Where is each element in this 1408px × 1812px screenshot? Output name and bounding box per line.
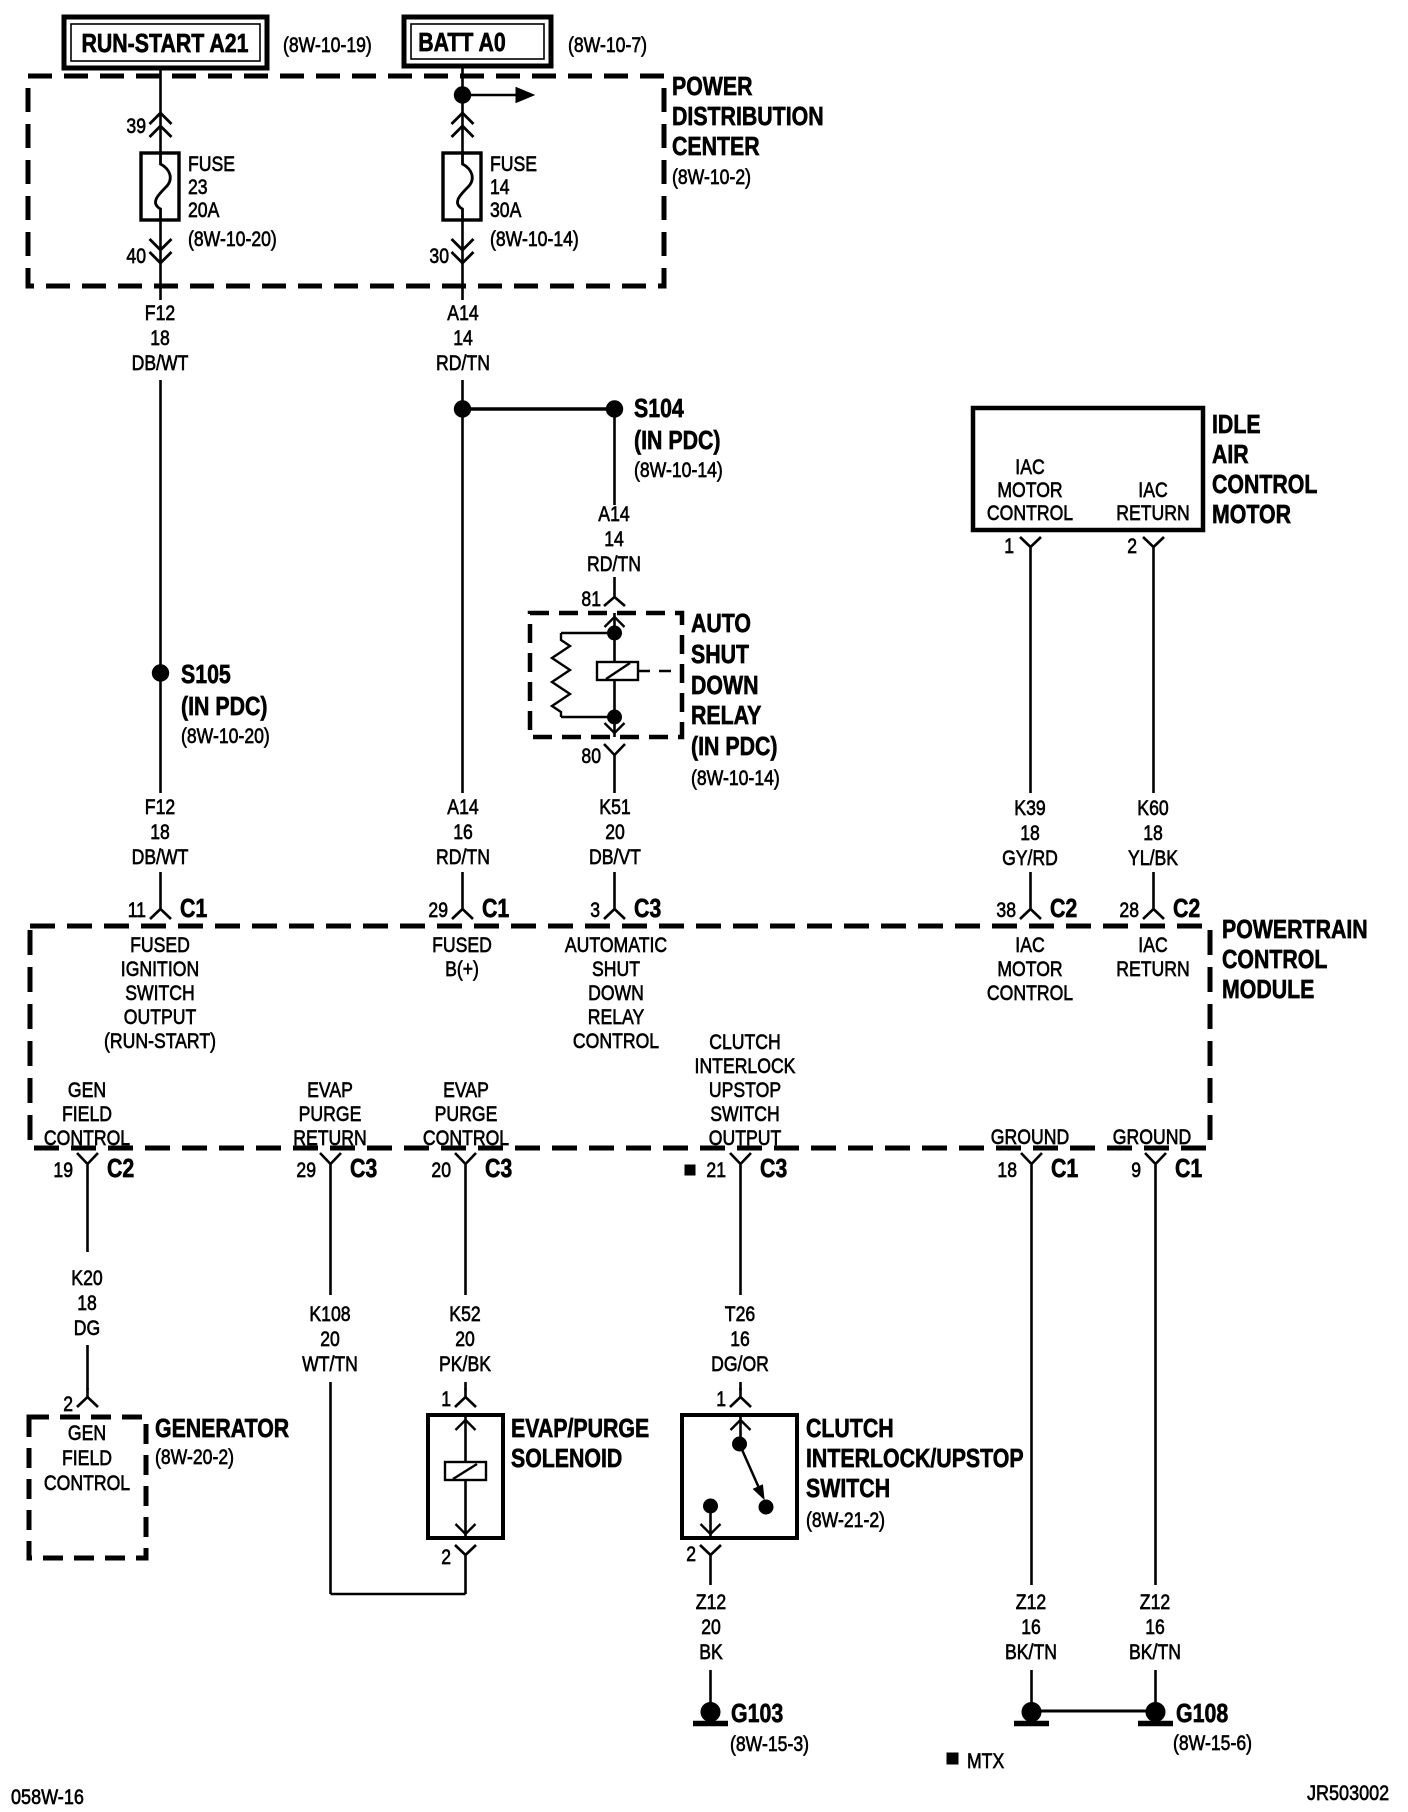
wire K108 to solenoid pin 2 <box>331 1593 466 1596</box>
svg-text:CLUTCH: CLUTCH <box>806 1413 894 1443</box>
svg-text:SWITCH: SWITCH <box>125 981 195 1005</box>
svg-text:DB/WT: DB/WT <box>132 845 189 869</box>
relay bottom junction <box>608 710 622 724</box>
splice S105 <box>152 659 269 748</box>
powertrain control module dashed box <box>30 926 1210 1148</box>
svg-text:20: 20 <box>320 1327 340 1351</box>
svg-text:EVAP: EVAP <box>307 1078 353 1102</box>
wire label F12 18 DB/WT lower <box>132 795 189 869</box>
svg-text:A14: A14 <box>447 795 478 819</box>
svg-text:AIR: AIR <box>1212 439 1249 469</box>
svg-text:1: 1 <box>441 1387 451 1411</box>
ground G103 <box>693 1698 809 1756</box>
svg-text:2: 2 <box>1127 534 1137 558</box>
svg-text:9: 9 <box>1131 1158 1141 1182</box>
solenoid output arrow <box>456 1480 476 1538</box>
pin 28 C2 into PCM <box>1119 872 1200 923</box>
wire label K20 18 DG <box>71 1266 102 1340</box>
label GROUND left <box>991 1125 1069 1149</box>
svg-text:K52: K52 <box>449 1302 480 1326</box>
svg-text:14: 14 <box>453 326 473 350</box>
svg-text:81: 81 <box>581 587 601 611</box>
svg-text:GEN: GEN <box>68 1078 106 1102</box>
label (8W-10-7) <box>568 33 647 57</box>
wire label A14 16 RD/TN <box>436 795 490 869</box>
chevron pair above fuse 14 <box>452 113 474 137</box>
svg-text:RELAY: RELAY <box>588 1005 645 1029</box>
svg-text:(8W-10-14): (8W-10-14) <box>691 766 780 790</box>
svg-text:SWITCH: SWITCH <box>710 1102 780 1126</box>
switch contact right <box>759 1500 773 1514</box>
connector box BATT A0 <box>404 17 551 66</box>
svg-text:G103: G103 <box>731 1698 783 1728</box>
pin 9 C1 out of PCM <box>1131 1153 1202 1185</box>
pin 2 of generator <box>63 1388 98 1416</box>
svg-text:RETURN: RETURN <box>293 1126 367 1150</box>
svg-text:16: 16 <box>1021 1615 1041 1639</box>
svg-text:GENERATOR: GENERATOR <box>155 1413 289 1443</box>
svg-text:CONTROL: CONTROL <box>987 981 1073 1005</box>
svg-text:FIELD: FIELD <box>62 1446 112 1470</box>
svg-text:OUTPUT: OUTPUT <box>124 1005 197 1029</box>
label IAC RETURN in box <box>1116 478 1190 525</box>
switch common contact <box>733 1437 747 1451</box>
wire label Z12 20 BK <box>696 1590 726 1664</box>
wire S104 left branch down <box>461 417 464 793</box>
svg-text:80: 80 <box>581 744 601 768</box>
svg-text:SWITCH: SWITCH <box>806 1473 890 1503</box>
label GEN FIELD CONTROL in generator <box>44 1421 130 1495</box>
wire between grounds <box>1040 1710 1147 1713</box>
svg-text:30: 30 <box>429 244 449 268</box>
label FUSED IGNITION SWITCH OUTPUT (RUN-START) <box>104 933 216 1053</box>
pin 21 C3 out of PCM <box>685 1153 787 1185</box>
svg-text:23: 23 <box>188 175 208 199</box>
svg-text:058W-16: 058W-16 <box>11 1785 84 1809</box>
label EVAP PURGE RETURN <box>293 1078 367 1150</box>
splice S104 <box>454 393 723 482</box>
svg-text:16: 16 <box>1145 1615 1165 1639</box>
svg-text:POWER: POWER <box>672 71 753 101</box>
svg-text:PURGE: PURGE <box>435 1102 498 1126</box>
wire Z12 right upper <box>1154 1185 1157 1585</box>
wire K108 upper <box>329 1185 332 1295</box>
svg-text:20: 20 <box>605 820 625 844</box>
label CLUTCH INTERLOCK UPSTOP SWITCH OUTPUT <box>695 1030 796 1150</box>
wire T26 lower <box>739 1382 742 1390</box>
wire S104 right branch down <box>613 417 616 505</box>
wire label K108 20 WT/TN <box>302 1302 358 1376</box>
pin 18 C1 out of PCM <box>997 1153 1078 1185</box>
svg-text:FUSE: FUSE <box>188 152 235 176</box>
svg-text:CENTER: CENTER <box>672 131 760 161</box>
relay coil <box>597 633 681 717</box>
label IAC MOTOR CONTROL in box <box>987 455 1073 525</box>
pin 11 C1 into PCM <box>128 872 208 923</box>
relay coil branch wires <box>561 633 615 717</box>
svg-text:Z12: Z12 <box>696 1590 726 1614</box>
svg-text:CONTROL: CONTROL <box>1222 944 1327 974</box>
pin 1 of IAC motor <box>1004 534 1041 560</box>
ground G108 left node <box>1014 1703 1049 1724</box>
svg-text:14: 14 <box>604 527 624 551</box>
svg-text:C3: C3 <box>350 1153 377 1183</box>
pin 29 C1 into PCM <box>428 872 509 923</box>
svg-text:K39: K39 <box>1014 796 1045 820</box>
chevron pair below fuse 23 <box>150 239 172 263</box>
svg-text:38: 38 <box>996 898 1016 922</box>
svg-text:(8W-10-20): (8W-10-20) <box>188 227 277 251</box>
svg-text:CONTROL: CONTROL <box>44 1126 130 1150</box>
pin 29 C3 out of PCM <box>296 1153 377 1185</box>
svg-text:(8W-10-2): (8W-10-2) <box>672 165 751 189</box>
svg-text:30A: 30A <box>490 198 522 222</box>
wire S105 to label <box>159 681 162 793</box>
svg-text:S105: S105 <box>181 659 231 689</box>
switch arm <box>740 1444 765 1499</box>
svg-text:20: 20 <box>431 1158 451 1182</box>
svg-text:MOTOR: MOTOR <box>1212 499 1291 529</box>
svg-text:IDLE: IDLE <box>1212 409 1261 439</box>
svg-text:MOTOR: MOTOR <box>997 957 1062 981</box>
wire label K60 18 YL/BK <box>1128 796 1179 870</box>
svg-text:20A: 20A <box>188 198 220 222</box>
label IDLE AIR CONTROL MOTOR <box>1212 409 1317 529</box>
svg-text:AUTOMATIC: AUTOMATIC <box>565 933 667 957</box>
solenoid input arrow <box>456 1415 476 1462</box>
svg-text:2: 2 <box>63 1392 73 1416</box>
svg-text:C3: C3 <box>634 893 661 923</box>
svg-text:11: 11 <box>128 898 146 922</box>
wire BATT A0 to node <box>461 66 464 95</box>
pin 2 of IAC motor <box>1127 534 1164 560</box>
svg-text:18: 18 <box>77 1291 97 1315</box>
svg-text:RELAY: RELAY <box>691 700 761 730</box>
svg-text:CONTROL: CONTROL <box>44 1471 130 1495</box>
svg-text:(8W-20-2): (8W-20-2) <box>155 1445 234 1469</box>
svg-text:EVAP/PURGE: EVAP/PURGE <box>511 1413 649 1443</box>
svg-text:A14: A14 <box>598 502 629 526</box>
svg-text:FUSE: FUSE <box>490 152 537 176</box>
wire Z12 left upper <box>1030 1185 1033 1585</box>
svg-text:C1: C1 <box>1175 1153 1202 1183</box>
switch contact left <box>704 1499 718 1513</box>
svg-text:IAC: IAC <box>1138 933 1167 957</box>
svg-text:14: 14 <box>490 175 510 199</box>
svg-text:FUSED: FUSED <box>432 933 492 957</box>
svg-text:DB/WT: DB/WT <box>132 351 189 375</box>
wire K20 lower <box>86 1345 89 1390</box>
relay input arrow <box>605 613 625 633</box>
svg-text:WT/TN: WT/TN <box>302 1352 358 1376</box>
svg-text:DOWN: DOWN <box>691 670 759 700</box>
svg-text:DB/VT: DB/VT <box>589 845 641 869</box>
svg-text:RD/TN: RD/TN <box>436 845 490 869</box>
svg-text:16: 16 <box>730 1327 750 1351</box>
ground G108 <box>1138 1698 1252 1755</box>
wire fuse 23 to PDC edge <box>159 220 162 300</box>
idle air control motor box <box>973 408 1203 530</box>
note MTX <box>947 1749 1004 1773</box>
svg-text:YL/BK: YL/BK <box>1128 846 1179 870</box>
svg-text:BK/TN: BK/TN <box>1005 1640 1057 1664</box>
chevron pair below fuse 14 <box>452 239 474 263</box>
svg-text:2: 2 <box>441 1545 451 1569</box>
label (8W-10-19) <box>283 33 372 57</box>
svg-text:BATT A0: BATT A0 <box>418 27 506 57</box>
wire K52 lower <box>464 1382 467 1390</box>
svg-text:1: 1 <box>1004 534 1014 558</box>
power distribution center dashed box <box>28 76 664 286</box>
svg-text:C3: C3 <box>485 1153 512 1183</box>
svg-text:(RUN-START): (RUN-START) <box>104 1029 216 1053</box>
svg-text:18: 18 <box>150 326 170 350</box>
svg-text:CONTROL: CONTROL <box>423 1126 509 1150</box>
svg-text:20: 20 <box>455 1327 475 1351</box>
svg-text:21: 21 <box>706 1158 726 1182</box>
wire node to fuse 14 <box>461 95 464 154</box>
svg-text:SOLENOID: SOLENOID <box>511 1443 622 1473</box>
svg-text:A14: A14 <box>447 301 478 325</box>
pin 38 C2 into PCM <box>996 872 1077 923</box>
wire fuse 14 to PDC edge <box>461 220 464 300</box>
svg-text:BK/TN: BK/TN <box>1129 1640 1181 1664</box>
pin 39 <box>126 114 146 138</box>
sheet number 058W-16 <box>11 1785 84 1809</box>
svg-text:MOTOR: MOTOR <box>997 478 1062 502</box>
svg-text:OUTPUT: OUTPUT <box>709 1126 782 1150</box>
svg-text:19: 19 <box>53 1158 73 1182</box>
label AUTOMATIC SHUT DOWN RELAY CONTROL <box>565 933 667 1053</box>
svg-text:MODULE: MODULE <box>1222 974 1314 1004</box>
svg-text:(8W-10-7): (8W-10-7) <box>568 33 647 57</box>
svg-text:3: 3 <box>590 898 600 922</box>
svg-text:K20: K20 <box>71 1266 102 1290</box>
svg-text:(IN PDC): (IN PDC) <box>634 425 721 455</box>
svg-text:(IN PDC): (IN PDC) <box>181 691 268 721</box>
label FUSED B(+) <box>432 933 492 981</box>
wire Z12 right to ground <box>1154 1670 1157 1705</box>
label POWERTRAIN CONTROL MODULE <box>1222 914 1368 1004</box>
node junction with arrow <box>454 87 534 103</box>
switch output arrow <box>701 1513 721 1538</box>
clutch interlock/upstop switch box <box>682 1415 797 1538</box>
pin 80 of ASD relay <box>581 744 625 793</box>
label EVAP/PURGE SOLENOID <box>511 1413 649 1473</box>
svg-text:GROUND: GROUND <box>1113 1125 1191 1149</box>
svg-text:AUTO: AUTO <box>691 608 751 638</box>
svg-text:F12: F12 <box>145 795 175 819</box>
svg-text:F12: F12 <box>145 301 175 325</box>
svg-text:PURGE: PURGE <box>299 1102 362 1126</box>
pin 20 C3 out of PCM <box>431 1153 512 1185</box>
relay output arrow <box>605 717 625 737</box>
wire label K52 20 PK/BK <box>439 1302 491 1376</box>
svg-text:CONTROL: CONTROL <box>1212 469 1317 499</box>
connector box RUN-START A21 <box>64 17 267 68</box>
pin 3 C3 into PCM <box>590 872 661 923</box>
svg-text:C1: C1 <box>1051 1153 1078 1183</box>
wire label K51 20 DB/VT <box>589 795 641 869</box>
svg-text:K51: K51 <box>599 795 630 819</box>
wire label F12 18 DB/WT <box>132 301 189 375</box>
pin 40 <box>126 244 146 268</box>
svg-text:(8W-15-6): (8W-15-6) <box>1173 1731 1252 1755</box>
svg-text:PK/BK: PK/BK <box>439 1352 491 1376</box>
label IAC MOTOR CONTROL in PCM <box>987 933 1073 1005</box>
wire A14 to S104 <box>461 380 464 402</box>
svg-text:GEN: GEN <box>68 1421 106 1445</box>
pin 19 C2 out of PCM <box>53 1153 134 1185</box>
auto shut down relay dashed box <box>530 613 682 737</box>
svg-text:(8W-10-19): (8W-10-19) <box>283 33 372 57</box>
wire K52 upper <box>464 1185 467 1295</box>
svg-text:Z12: Z12 <box>1016 1590 1046 1614</box>
label CLUTCH INTERLOCK/UPSTOP SWITCH <box>806 1413 1024 1532</box>
wire label A14 14 RD/TN relay <box>587 502 641 576</box>
generator dashed box <box>29 1417 146 1558</box>
drawing number JR503002 <box>1307 1781 1389 1805</box>
wire label Z12 16 BK/TN left <box>1005 1590 1057 1664</box>
wire label T26 16 DG/OR <box>711 1302 769 1376</box>
svg-text:DOWN: DOWN <box>588 981 644 1005</box>
svg-text:FUSED: FUSED <box>130 933 190 957</box>
wire Z12 left to ground <box>1030 1670 1033 1705</box>
pin 1 of evap solenoid <box>441 1387 476 1411</box>
wire to G103 <box>709 1670 712 1705</box>
svg-text:JR503002: JR503002 <box>1307 1781 1389 1805</box>
svg-text:IAC: IAC <box>1015 455 1044 479</box>
svg-text:(8W-10-20): (8W-10-20) <box>181 724 270 748</box>
svg-text:T26: T26 <box>725 1302 755 1326</box>
svg-text:18: 18 <box>1143 821 1163 845</box>
pin 30 <box>429 244 449 268</box>
svg-text:C3: C3 <box>760 1153 787 1183</box>
svg-text:C2: C2 <box>1050 893 1077 923</box>
svg-text:(8W-21-2): (8W-21-2) <box>806 1508 885 1532</box>
svg-text:CONTROL: CONTROL <box>573 1029 659 1053</box>
svg-text:K60: K60 <box>1137 796 1168 820</box>
svg-text:IGNITION: IGNITION <box>121 957 199 981</box>
svg-text:29: 29 <box>428 898 448 922</box>
svg-text:28: 28 <box>1119 898 1139 922</box>
svg-text:Z12: Z12 <box>1140 1590 1170 1614</box>
svg-text:INTERLOCK/UPSTOP: INTERLOCK/UPSTOP <box>806 1443 1024 1473</box>
svg-text:(8W-10-14): (8W-10-14) <box>490 227 579 251</box>
svg-text:18: 18 <box>997 1158 1017 1182</box>
svg-text:IAC: IAC <box>1015 933 1044 957</box>
evap/purge solenoid box <box>428 1415 503 1538</box>
label POWER DISTRIBUTION CENTER <box>672 71 824 189</box>
pin 2 of clutch switch <box>686 1542 721 1585</box>
svg-text:C1: C1 <box>482 893 509 923</box>
wire K39 <box>1029 560 1032 793</box>
wire label K39 18 GY/RD <box>1002 796 1058 870</box>
wire K20 upper <box>86 1185 89 1252</box>
svg-text:INTERLOCK: INTERLOCK <box>695 1054 796 1078</box>
svg-text:(8W-10-14): (8W-10-14) <box>634 458 723 482</box>
svg-text:16: 16 <box>453 820 473 844</box>
svg-text:RUN-START A21: RUN-START A21 <box>82 28 249 58</box>
svg-text:DISTRIBUTION: DISTRIBUTION <box>672 101 824 131</box>
switch input arrow <box>731 1415 751 1437</box>
svg-text:DG/OR: DG/OR <box>711 1352 769 1376</box>
wire T26 upper <box>739 1185 742 1295</box>
svg-text:20: 20 <box>701 1615 721 1639</box>
svg-text:C1: C1 <box>180 893 207 923</box>
svg-text:39: 39 <box>126 114 146 138</box>
svg-text:SHUT: SHUT <box>691 639 749 669</box>
svg-text:IAC: IAC <box>1138 478 1167 502</box>
wire label Z12 16 BK/TN right <box>1129 1590 1181 1664</box>
svg-text:K108: K108 <box>309 1302 350 1326</box>
svg-text:B(+): B(+) <box>445 957 479 981</box>
relay top junction <box>608 626 622 640</box>
svg-text:CLUTCH: CLUTCH <box>709 1030 781 1054</box>
svg-text:RD/TN: RD/TN <box>436 351 490 375</box>
svg-text:RETURN: RETURN <box>1116 501 1190 525</box>
wire F12 down to S105 <box>159 380 162 666</box>
chevron pair above fuse 23 <box>150 113 172 137</box>
svg-text:POWERTRAIN: POWERTRAIN <box>1222 914 1368 944</box>
svg-text:29: 29 <box>296 1158 316 1182</box>
svg-text:(IN PDC): (IN PDC) <box>691 731 778 761</box>
pin 81 of ASD relay <box>581 577 625 611</box>
svg-text:1: 1 <box>716 1387 726 1411</box>
svg-text:G108: G108 <box>1176 1698 1228 1728</box>
svg-text:DG: DG <box>74 1316 100 1340</box>
svg-text:S104: S104 <box>634 393 684 423</box>
svg-text:SHUT: SHUT <box>592 957 640 981</box>
svg-text:UPSTOP: UPSTOP <box>709 1078 781 1102</box>
solenoid coil <box>445 1462 486 1480</box>
label GROUND right <box>1113 1125 1191 1149</box>
svg-text:18: 18 <box>150 820 170 844</box>
fuse 14 (FUSE 14 30A) <box>443 152 579 251</box>
svg-text:CONTROL: CONTROL <box>987 501 1073 525</box>
svg-text:MTX: MTX <box>967 1749 1004 1773</box>
label AUTO SHUT DOWN RELAY <box>691 608 780 790</box>
wire K108 lower <box>329 1382 332 1594</box>
svg-text:40: 40 <box>126 244 146 268</box>
wire label A14 14 RD/TN <box>436 301 490 375</box>
svg-text:2: 2 <box>686 1542 696 1566</box>
pin 1 of clutch switch <box>716 1387 751 1411</box>
label GENERATOR <box>155 1413 289 1469</box>
svg-text:GROUND: GROUND <box>991 1125 1069 1149</box>
svg-text:C2: C2 <box>107 1153 134 1183</box>
label EVAP PURGE CONTROL <box>423 1078 509 1150</box>
svg-text:FIELD: FIELD <box>62 1102 112 1126</box>
label GEN FIELD CONTROL in PCM <box>44 1078 130 1150</box>
pin 2 of evap solenoid <box>441 1545 476 1594</box>
wire RUN-START A21 to fuse 23 <box>159 68 162 154</box>
svg-text:RD/TN: RD/TN <box>587 552 641 576</box>
svg-text:BK: BK <box>699 1640 723 1664</box>
wire K60 <box>1152 560 1155 793</box>
svg-text:C2: C2 <box>1173 893 1200 923</box>
fuse 23 (FUSE 23 20A) <box>141 152 277 251</box>
relay resistor <box>552 633 570 717</box>
svg-text:GY/RD: GY/RD <box>1002 846 1058 870</box>
svg-text:EVAP: EVAP <box>443 1078 489 1102</box>
svg-text:(8W-15-3): (8W-15-3) <box>730 1732 809 1756</box>
label IAC RETURN in PCM <box>1116 933 1190 981</box>
svg-text:18: 18 <box>1020 821 1040 845</box>
svg-text:RETURN: RETURN <box>1116 957 1190 981</box>
